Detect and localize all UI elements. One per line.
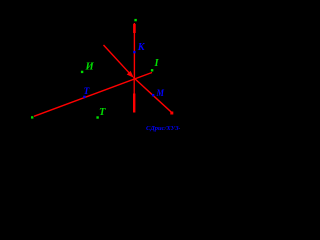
- svg-text:И: И: [85, 61, 95, 72]
- node: blue point M on steep ray: [152, 94, 154, 96]
- wire: vertical axis lower thick bar: [133, 94, 135, 113]
- wire: vertical axis upper part: [133, 23, 135, 78]
- node: green point top of vertical axis: [134, 19, 136, 21]
- node: blue point T on long line: [83, 96, 85, 98]
- svg-text:М: М: [156, 89, 165, 99]
- svg-text:СДрис/ХУЗ-: СДрис/ХУЗ-: [146, 125, 180, 132]
- wire: long segment line through T and center: [34, 73, 152, 117]
- wire: vertical axis thick arrow bar top: [133, 24, 136, 33]
- node: green point bottom-left end of long line: [31, 116, 33, 118]
- wire: upper-left vector into center: [104, 45, 133, 76]
- wire: arrowhead at center of upper-left vector: [127, 71, 134, 78]
- node: blue point K on vertical axis: [133, 51, 135, 53]
- svg-text:К: К: [137, 42, 146, 53]
- wire: steep lower-right ray: [134, 78, 172, 113]
- wire: vertical axis lower thin part: [133, 78, 135, 94]
- node: endpoint blob of lower-right ray: [170, 112, 173, 115]
- node: green point H: [81, 71, 83, 73]
- node: green point right end of long line: [151, 69, 153, 71]
- node: green point T lower: [96, 116, 98, 118]
- svg-text:Т: Т: [99, 107, 106, 118]
